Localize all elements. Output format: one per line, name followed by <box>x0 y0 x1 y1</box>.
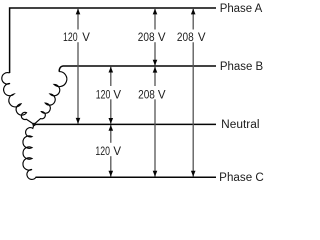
svg-text:V: V <box>82 32 90 44</box>
svg-text:V: V <box>158 32 166 44</box>
svg-text:Phase B: Phase B <box>220 61 264 73</box>
svg-text:V: V <box>198 32 206 44</box>
svg-text:208: 208 <box>138 32 155 44</box>
svg-text:120: 120 <box>96 89 111 101</box>
svg-text:120: 120 <box>95 146 110 158</box>
svg-text:V: V <box>113 89 121 101</box>
svg-text:V: V <box>158 89 166 101</box>
svg-text:120: 120 <box>63 32 78 44</box>
svg-text:208: 208 <box>177 32 194 44</box>
svg-text:V: V <box>113 146 121 158</box>
svg-text:208: 208 <box>138 89 155 101</box>
svg-text:Phase A: Phase A <box>220 3 263 15</box>
svg-text:Phase C: Phase C <box>219 172 264 184</box>
svg-text:Neutral: Neutral <box>221 119 259 131</box>
